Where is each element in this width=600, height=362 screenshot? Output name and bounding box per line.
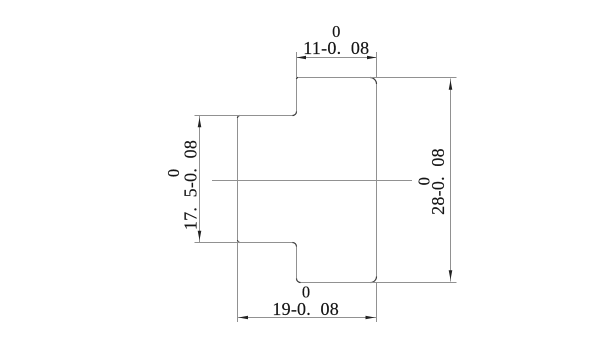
svg-text:19-0. 08: 19-0. 08	[272, 299, 339, 319]
svg-text:28-0. 08: 28-0. 08	[428, 148, 448, 215]
svg-text:11-0. 08: 11-0. 08	[303, 38, 369, 58]
svg-text:17. 5-0. 08: 17. 5-0. 08	[180, 140, 200, 230]
